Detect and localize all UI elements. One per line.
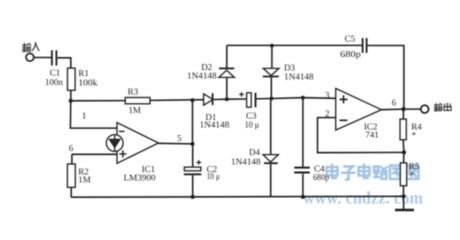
svg-text:2: 2 — [325, 109, 330, 119]
svg-text:100n: 100n — [45, 77, 63, 87]
svg-text:741: 741 — [365, 130, 379, 140]
svg-text:1N4148: 1N4148 — [200, 120, 230, 130]
svg-text:100k: 100k — [78, 78, 97, 88]
svg-text:1N4148: 1N4148 — [187, 71, 217, 81]
svg-text:6: 6 — [69, 143, 74, 153]
svg-text:1N4148: 1N4148 — [231, 156, 261, 166]
svg-text:1M: 1M — [128, 105, 141, 115]
svg-text:680p: 680p — [340, 49, 361, 59]
svg-text:1: 1 — [82, 110, 87, 120]
svg-text:*: * — [412, 130, 417, 140]
svg-text:*: * — [410, 170, 415, 180]
svg-text:6: 6 — [392, 97, 397, 107]
svg-text:10 μ: 10 μ — [245, 120, 260, 130]
svg-text:5: 5 — [177, 133, 182, 143]
svg-text:LM3900: LM3900 — [124, 172, 157, 182]
svg-text:680p: 680p — [313, 172, 330, 182]
svg-text:R3: R3 — [128, 87, 139, 97]
svg-text:1N4148: 1N4148 — [284, 72, 314, 82]
svg-text:10 μ: 10 μ — [207, 171, 220, 181]
svg-text:3: 3 — [325, 90, 330, 100]
svg-text:C5: C5 — [345, 34, 356, 44]
svg-text:1M: 1M — [78, 174, 91, 184]
